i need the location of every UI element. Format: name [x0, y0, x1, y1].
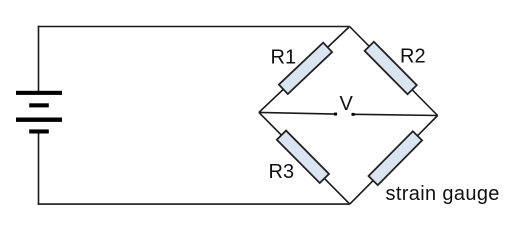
svg-text:V: V — [340, 93, 354, 115]
wire: bridge arm top-right (top node to right node) — [350, 27, 438, 116]
battery B1: short plate 2 — [29, 129, 49, 133]
wire: voltmeter lead right (right terminal to right node) — [353, 114, 437, 115]
voltmeter terminal dot right — [352, 113, 355, 116]
resistor R3 body — [277, 131, 329, 183]
battery B1: short plate 1 — [29, 103, 49, 107]
svg-text:R2: R2 — [400, 46, 426, 68]
wire: bridge arm bottom-left (left node to bottom node) — [259, 112, 350, 204]
svg-text:R3: R3 — [269, 161, 295, 183]
wire: voltmeter lead left (left node to left terminal) — [259, 112, 335, 114]
svg-text:R1: R1 — [271, 47, 297, 69]
wire: left vertical, battery bottom lead — [38, 133, 40, 205]
strain gauge body — [369, 131, 423, 185]
wire: bottom rail — [38, 203, 350, 205]
resistor R1 body — [279, 43, 332, 94]
voltmeter terminal dot left — [334, 113, 337, 116]
wire: bridge arm bottom-right (bottom node to right node) — [350, 116, 438, 205]
wire: bridge arm top-left (top node to left node) — [259, 27, 350, 113]
wire: left vertical, battery top lead — [38, 26, 40, 91]
wire: top rail — [38, 26, 350, 28]
battery B1: long plate 1 — [16, 91, 62, 95]
svg-text:strain gauge: strain gauge — [386, 183, 500, 205]
battery B1: long plate 2 — [16, 118, 62, 122]
resistor R2 body — [365, 42, 417, 95]
